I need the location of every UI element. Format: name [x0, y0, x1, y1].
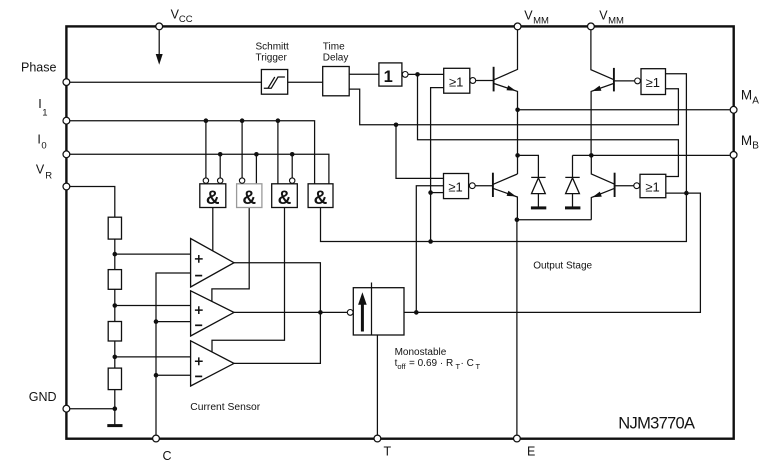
I1 pin: [63, 117, 70, 124]
svg-text:&: &: [278, 188, 292, 209]
comparator K2: [191, 291, 234, 336]
svg-text:&: &: [242, 188, 256, 209]
node right disable junction: [684, 191, 689, 196]
svg-text:Delay: Delay: [323, 53, 349, 64]
VMM pin 2: [588, 23, 595, 30]
VMM pin 1: [514, 23, 521, 30]
wire divider tap to comparator 2: [115, 305, 191, 307]
node divider tap 2: [113, 303, 118, 308]
wire monostable T pin column: [376, 335, 378, 435]
svg-text:NJM3770A: NJM3770A: [618, 414, 695, 432]
wire AND4 disable line to upper-right OR gate: [321, 74, 687, 242]
node dots: [113, 72, 689, 411]
svg-text:= 0.69 · R: = 0.69 · R: [409, 358, 453, 369]
T pin: [374, 435, 381, 442]
svg-text:1: 1: [42, 107, 47, 118]
svg-text:I: I: [37, 133, 40, 147]
node I0 tap 1: [218, 152, 223, 157]
svg-text:B: B: [752, 141, 759, 152]
node divider tap 3: [113, 355, 118, 360]
comparator K1: [191, 239, 234, 288]
wire disable branch to lower-left OR gate input 3: [431, 192, 444, 194]
wire AND2 output to comparator 2: [212, 208, 249, 302]
monostable box U8: [353, 288, 404, 335]
svg-text:M: M: [741, 133, 752, 148]
wire AND3 output to comparator 3: [212, 208, 285, 352]
svg-text:V: V: [36, 163, 45, 177]
wire AND1 output to comparator 1: [212, 208, 214, 251]
wire I0 stub to AND3: [291, 154, 293, 177]
VCC pin: [156, 23, 163, 30]
wire comparator 2 output to monostable: [234, 311, 347, 313]
wire phase input: [70, 81, 262, 83]
or-gate U7 lower-right: [640, 174, 666, 197]
GND pin: [63, 405, 70, 412]
node monostable output junction: [414, 310, 419, 315]
svg-text:≥1: ≥1: [646, 75, 660, 90]
svg-text:Schmitt: Schmitt: [256, 42, 290, 53]
wire I1 stub to AND3: [277, 121, 279, 184]
VR pin: [63, 183, 70, 190]
svg-text:E: E: [527, 445, 535, 459]
node I1 tap 3: [276, 118, 281, 123]
node C column comp2: [154, 319, 159, 324]
wire schmitt to time delay: [288, 81, 323, 83]
wire inverted phase riser to lower-right OR gate: [418, 74, 679, 176]
node lower-left OR input 3: [428, 190, 433, 195]
wire I0 stub to AND2: [255, 154, 257, 184]
monostable input bubble: [347, 310, 353, 316]
node emitter rail E junction: [515, 217, 520, 222]
svg-text:A: A: [752, 95, 759, 106]
resistor R4: [108, 368, 121, 390]
monostable arrow symbol: [361, 302, 364, 332]
wire E pin column: [516, 220, 518, 436]
svg-text:Current Sensor: Current Sensor: [190, 402, 260, 413]
wire I0 stub to AND1: [219, 154, 221, 177]
svg-text:CC: CC: [179, 14, 193, 25]
and-gate A1: [200, 184, 226, 208]
inverter 1-gate U3: [379, 63, 402, 86]
svg-text:≥1: ≥1: [448, 180, 462, 195]
wire VR to resistor chain: [70, 187, 115, 218]
wire GND pin to divider: [70, 408, 115, 410]
wire divider tap to comparator 1: [115, 253, 191, 255]
E pin: [514, 435, 521, 442]
svg-text:Output Stage: Output Stage: [533, 260, 592, 271]
svg-text:· C: · C: [461, 358, 474, 369]
and-gate A4: [308, 184, 333, 208]
diode D2: [573, 155, 592, 206]
wire comparator 3 output: [234, 312, 320, 363]
resistor R3: [108, 322, 121, 342]
and-gate A2 (gray): [237, 184, 262, 208]
svg-text:&: &: [206, 188, 220, 209]
wire MB output line: [591, 154, 730, 156]
node I1 tap 1: [204, 118, 209, 123]
wire time delay to 1-gate: [349, 73, 379, 75]
node direct phase junction: [394, 123, 399, 128]
node divider tap 1: [113, 252, 118, 257]
svg-text:MM: MM: [533, 15, 549, 26]
svg-text:1: 1: [384, 68, 393, 86]
node 1-gate output junction: [415, 72, 420, 77]
and-gate A3: [272, 184, 298, 208]
resistor R2: [108, 270, 121, 290]
schmitt trigger hysteresis symbol: [264, 77, 285, 88]
svg-text:&: &: [314, 188, 328, 209]
MB pin: [730, 152, 737, 159]
C pin: [153, 435, 160, 442]
I0 pin: [63, 151, 70, 158]
Phase pin: [63, 79, 70, 86]
svg-text:≥1: ≥1: [449, 74, 463, 89]
schmitt trigger box U1: [261, 70, 287, 95]
wire divider tap to comparator 3: [115, 356, 191, 358]
wire resistor chain segments: [114, 239, 116, 425]
wire I1 stub to AND2: [241, 121, 243, 178]
or-gate U4 upper-left: [444, 68, 470, 93]
wire comparator 1 output: [234, 263, 320, 313]
node MA junction: [515, 108, 520, 113]
wire I1 bus: [70, 121, 315, 184]
svg-text:R: R: [45, 170, 52, 181]
node comparator output junction: [318, 310, 323, 315]
node C column comp3: [154, 373, 159, 378]
comparator K3: [191, 341, 234, 386]
transistor Q3 lower-left: [492, 173, 494, 197]
transistor Q2 upper-right: [613, 68, 615, 92]
diode D1: [518, 155, 539, 206]
node I0 tap 2: [254, 152, 259, 157]
svg-text:MM: MM: [608, 15, 624, 26]
wire MA output line: [518, 109, 730, 111]
wire 1-gate output to upper-left OR gate: [408, 73, 444, 75]
wire I0 bus: [70, 154, 329, 184]
svg-text:Time: Time: [323, 42, 345, 53]
svg-text:Monostable: Monostable: [395, 347, 447, 358]
node MB junction: [589, 153, 594, 158]
wire direct phase from time delay to upper-right OR gate: [349, 89, 678, 125]
time delay box U2: [323, 67, 350, 96]
transistor Q1 upper-left: [493, 67, 495, 92]
svg-text:I: I: [38, 97, 41, 111]
VCC arrow: [158, 30, 160, 56]
wire monostable branch to lower-left OR gate: [416, 186, 443, 313]
node I0 tap 3: [290, 152, 295, 157]
svg-text:Trigger: Trigger: [256, 53, 288, 64]
svg-text:Phase: Phase: [21, 60, 56, 74]
svg-text:V: V: [599, 9, 608, 23]
wire I1 stub to AND1: [205, 121, 207, 178]
node I1 tap 2: [240, 118, 245, 123]
svg-text:V: V: [524, 9, 533, 23]
svg-text:T: T: [384, 445, 392, 459]
wire C sense column to comparator minus inputs: [156, 273, 191, 435]
resistor R1: [108, 217, 121, 239]
node divider gnd tap: [113, 406, 118, 411]
svg-text:GND: GND: [29, 390, 57, 404]
node diode 1 tap: [515, 153, 520, 158]
ground symbol: [107, 424, 122, 427]
or-gate U6 upper-right: [641, 69, 666, 95]
IC outer border: [66, 26, 733, 438]
svg-text:M: M: [741, 88, 752, 103]
svg-text:C: C: [163, 449, 172, 463]
transistor Q4 lower-right: [614, 173, 616, 197]
wire output stage emitter rail: [517, 219, 591, 221]
MA pin: [730, 106, 737, 113]
svg-text:≥1: ≥1: [645, 180, 659, 195]
wire monostable output to lower-right OR gate: [404, 193, 700, 312]
wire direct phase branch to lower-left OR gate: [396, 125, 444, 179]
svg-text:off: off: [397, 362, 406, 371]
inverter 1-gate bubble: [402, 72, 408, 78]
svg-text:0: 0: [41, 140, 46, 151]
wire disable branch to upper-left OR gate: [431, 88, 444, 242]
or-gate U5 lower-left: [444, 174, 469, 199]
svg-text:T: T: [476, 362, 481, 371]
node disable line junction: [428, 239, 433, 244]
